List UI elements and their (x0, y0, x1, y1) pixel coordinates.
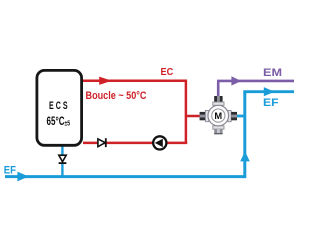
wire: blue right vertical up to EF outlet (243, 92, 246, 178)
flow arrow on top EF outlet (blue, right) (264, 87, 275, 96)
wire: blue drain drop from tank (61, 146, 63, 155)
wire: EM horizontal (purple) (217, 80, 294, 83)
valve body (208, 105, 229, 126)
valve right flange (228, 111, 231, 122)
3-way motorised mixing valve V1 (200, 96, 237, 134)
check valve on return pipe (98, 139, 105, 147)
svg-text:Boucle ~ 50°C: Boucle ~ 50°C (86, 90, 147, 102)
pump (circulator) (153, 136, 166, 149)
svg-text:EF: EF (4, 164, 16, 176)
flow arrow on right vertical (blue, up) (240, 151, 250, 161)
svg-text:M: M (214, 111, 222, 121)
wire: blue stub to valve right port (235, 115, 245, 118)
tank ECS body (37, 70, 82, 145)
valve left port cap (200, 112, 206, 120)
wire: blue top horizontal EF outlet (243, 90, 294, 93)
svg-text:EM: EM (263, 67, 282, 79)
wire: EC hot loop top pipe (red) (83, 80, 186, 83)
svg-text:EC: EC (161, 66, 174, 78)
wire: red loop bottom return pipe (83, 142, 187, 145)
valve bottom flange (213, 126, 224, 129)
wire: EM mixed outlet vertical (purple) (217, 82, 220, 98)
valve left flange (205, 111, 208, 122)
flow arrow on bottom pipe (blue, right) (17, 172, 28, 182)
svg-text:E C S: E C S (49, 100, 68, 112)
valve top flange (213, 102, 224, 105)
flow arrow on top pipe (red, right) (99, 77, 112, 85)
wire: red branch to valve left port (186, 115, 201, 118)
wire: EF cold supply bottom pipe (blue) (5, 175, 245, 178)
svg-text:EF: EF (263, 97, 279, 109)
valve top port cap (214, 96, 222, 102)
valve inner circle (212, 109, 225, 122)
wire: red loop right vertical (185, 80, 188, 143)
valve right port cap (231, 112, 237, 120)
valve bottom port cap (214, 129, 222, 134)
drain check valve below tank (59, 155, 66, 162)
flow arrow on EM line (purple, right) (231, 76, 241, 85)
